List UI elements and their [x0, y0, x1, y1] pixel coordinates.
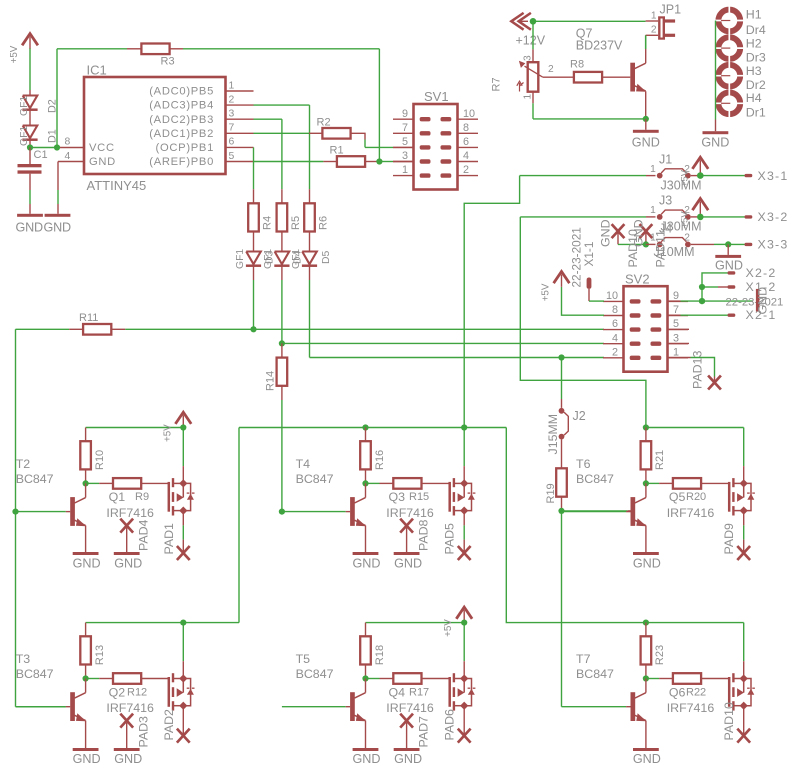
svg-text:X2-2: X2-2 [746, 266, 777, 280]
svg-text:Q3: Q3 [389, 490, 406, 504]
svg-text:Q6: Q6 [669, 685, 686, 699]
svg-text:ATTINY45: ATTINY45 [87, 178, 147, 193]
svg-text:X1-1: X1-1 [582, 242, 596, 267]
svg-text:GND: GND [353, 556, 381, 570]
svg-text:IRF7416: IRF7416 [106, 701, 154, 715]
svg-text:Dr2: Dr2 [746, 78, 766, 92]
svg-text:BD237V: BD237V [576, 39, 623, 53]
svg-text:7: 7 [229, 123, 235, 134]
svg-text:2: 2 [684, 233, 690, 244]
svg-text:IRF7416: IRF7416 [386, 506, 434, 520]
svg-text:Q2: Q2 [109, 685, 126, 699]
svg-text:PAD8: PAD8 [417, 519, 431, 551]
svg-text:BC847: BC847 [16, 667, 54, 681]
svg-text:BC847: BC847 [296, 667, 334, 681]
svg-text:X3-1: X3-1 [758, 169, 789, 183]
svg-text:PAD4: PAD4 [137, 519, 151, 551]
svg-text:22-23-2021: 22-23-2021 [726, 296, 784, 308]
svg-text:3: 3 [523, 55, 534, 61]
svg-text:GND: GND [701, 135, 729, 149]
svg-text:GND: GND [633, 752, 661, 766]
svg-text:GND: GND [632, 219, 646, 247]
svg-text:R20: R20 [686, 491, 706, 503]
svg-text:5: 5 [229, 151, 235, 162]
svg-text:6: 6 [229, 137, 235, 148]
svg-text:1: 1 [650, 164, 656, 175]
svg-text:(ADC3)PB4: (ADC3)PB4 [149, 100, 214, 112]
svg-text:BC847: BC847 [576, 667, 614, 681]
svg-text:6: 6 [612, 318, 618, 330]
svg-text:J1: J1 [659, 152, 672, 166]
svg-text:+5V: +5V [541, 283, 552, 301]
svg-text:1: 1 [402, 164, 408, 176]
svg-text:R12: R12 [127, 686, 147, 698]
svg-text:R1: R1 [330, 145, 344, 157]
svg-text:BC847: BC847 [16, 472, 54, 486]
svg-text:2: 2 [229, 94, 235, 105]
svg-text:1: 1 [673, 346, 679, 358]
svg-text:T4: T4 [296, 457, 311, 471]
svg-text:GND: GND [632, 135, 660, 149]
svg-text:R4: R4 [262, 216, 274, 230]
svg-text:GND: GND [44, 221, 71, 235]
svg-text:2: 2 [548, 64, 554, 75]
svg-text:2: 2 [612, 346, 618, 358]
svg-text:+12V: +12V [516, 33, 546, 47]
svg-text:9: 9 [673, 290, 679, 302]
svg-text:1: 1 [523, 94, 534, 100]
svg-text:+5V: +5V [443, 619, 454, 637]
svg-text:(ADC2)PB3: (ADC2)PB3 [149, 114, 214, 126]
svg-text:R23: R23 [654, 645, 666, 665]
svg-text:8: 8 [65, 137, 71, 148]
svg-text:R22: R22 [686, 686, 706, 698]
svg-text:GF1: GF1 [19, 96, 30, 116]
svg-text:PAD3: PAD3 [137, 716, 151, 748]
svg-text:R6: R6 [318, 216, 330, 230]
svg-text:R17: R17 [409, 686, 429, 698]
svg-text:R11: R11 [79, 312, 98, 324]
svg-text:D5: D5 [321, 250, 332, 264]
svg-text:J30MM: J30MM [661, 178, 702, 192]
svg-text:IRF7416: IRF7416 [667, 701, 715, 715]
svg-text:GND: GND [394, 556, 422, 570]
svg-text:PAD2: PAD2 [162, 709, 176, 741]
svg-text:H2: H2 [746, 37, 762, 51]
svg-text:+5V: +5V [162, 424, 173, 442]
svg-text:3: 3 [229, 109, 235, 120]
svg-text:(AREF)PB0: (AREF)PB0 [149, 156, 214, 168]
svg-text:X3-2: X3-2 [758, 210, 789, 224]
svg-text:T7: T7 [576, 652, 591, 666]
svg-text:H1: H1 [746, 8, 762, 22]
svg-text:GND: GND [114, 752, 142, 766]
svg-text:Dr3: Dr3 [746, 51, 766, 65]
svg-text:(ADC1)PB2: (ADC1)PB2 [149, 128, 214, 140]
svg-text:R18: R18 [374, 645, 386, 665]
svg-text:IRF7416: IRF7416 [386, 701, 434, 715]
svg-text:1: 1 [651, 10, 657, 21]
svg-text:R7: R7 [491, 77, 503, 91]
svg-text:T6: T6 [576, 457, 591, 471]
svg-text:R21: R21 [654, 450, 666, 470]
svg-text:(OCP)PB1: (OCP)PB1 [156, 142, 214, 154]
svg-text:9: 9 [402, 108, 408, 120]
svg-text:R19: R19 [545, 483, 557, 503]
svg-text:R16: R16 [374, 450, 386, 470]
svg-text:SV2: SV2 [625, 271, 650, 286]
svg-text:R2: R2 [317, 117, 331, 129]
svg-text:VCC: VCC [89, 142, 115, 154]
svg-text:GF1: GF1 [291, 249, 302, 269]
svg-text:(ADC0)PB5: (ADC0)PB5 [149, 86, 214, 98]
svg-text:BC847: BC847 [296, 472, 334, 486]
svg-text:J3: J3 [659, 194, 672, 208]
svg-text:H3: H3 [746, 64, 762, 78]
svg-text:R15: R15 [409, 491, 429, 503]
svg-text:IRF7416: IRF7416 [667, 506, 715, 520]
svg-text:R9: R9 [135, 491, 149, 503]
svg-text:R5: R5 [290, 216, 302, 230]
svg-text:4: 4 [65, 151, 71, 162]
svg-text:H4: H4 [746, 91, 762, 105]
svg-text:GND: GND [394, 752, 422, 766]
svg-text:2: 2 [684, 164, 690, 175]
svg-text:GND: GND [73, 752, 101, 766]
svg-text:PAD6: PAD6 [443, 709, 457, 741]
svg-text:7: 7 [673, 304, 679, 316]
svg-text:R8: R8 [570, 59, 584, 71]
svg-text:J15MM: J15MM [546, 414, 560, 455]
svg-text:3: 3 [673, 332, 679, 344]
svg-text:GF1: GF1 [19, 126, 30, 146]
svg-text:T2: T2 [16, 457, 31, 471]
svg-text:8: 8 [612, 304, 618, 316]
svg-text:4: 4 [463, 150, 469, 162]
svg-text:3: 3 [402, 150, 408, 162]
svg-text:2: 2 [684, 205, 690, 216]
svg-text:8: 8 [463, 122, 469, 134]
svg-text:GND: GND [16, 221, 43, 235]
svg-text:GND: GND [715, 259, 743, 273]
svg-text:T5: T5 [296, 652, 311, 666]
svg-text:IRF7416: IRF7416 [106, 506, 154, 520]
svg-text:1: 1 [229, 80, 235, 91]
svg-text:R14: R14 [265, 371, 277, 391]
svg-text:7: 7 [402, 122, 408, 134]
svg-text:5: 5 [402, 136, 408, 148]
svg-text:6: 6 [463, 136, 469, 148]
svg-text:GND: GND [114, 556, 142, 570]
svg-text:GND: GND [633, 556, 661, 570]
svg-text:BC847: BC847 [576, 472, 614, 486]
svg-text:GF1: GF1 [235, 249, 246, 269]
svg-text:PAD5: PAD5 [443, 523, 457, 555]
svg-text:PAD13: PAD13 [691, 351, 705, 389]
svg-text:Q1: Q1 [109, 490, 126, 504]
svg-text:Dr4: Dr4 [746, 23, 766, 37]
svg-text:1: 1 [650, 205, 656, 216]
svg-text:C1: C1 [34, 149, 48, 161]
svg-text:2: 2 [463, 164, 469, 176]
svg-text:SV1: SV1 [424, 89, 449, 104]
svg-text:PAD1: PAD1 [162, 523, 176, 555]
svg-text:GND: GND [599, 219, 613, 247]
svg-text:GND: GND [89, 156, 116, 168]
svg-text:GND: GND [353, 752, 381, 766]
svg-text:Dr1: Dr1 [746, 106, 766, 120]
svg-text:5: 5 [673, 318, 679, 330]
svg-text:X3-3: X3-3 [758, 238, 789, 252]
svg-text:R10: R10 [94, 450, 106, 470]
svg-text:2: 2 [651, 24, 657, 35]
svg-text:PAD11: PAD11 [654, 230, 668, 268]
svg-text:PAD9: PAD9 [722, 523, 736, 555]
svg-text:GF1: GF1 [263, 249, 274, 269]
svg-text:Q5: Q5 [669, 490, 686, 504]
svg-text:10: 10 [606, 290, 618, 302]
svg-text:J2: J2 [573, 409, 586, 423]
svg-text:GND: GND [73, 556, 101, 570]
svg-text:10: 10 [463, 108, 475, 120]
svg-text:Q4: Q4 [389, 685, 406, 699]
svg-text:+5V: +5V [9, 45, 20, 63]
svg-text:T3: T3 [16, 652, 31, 666]
svg-text:R13: R13 [94, 645, 106, 665]
svg-text:GND: GND [756, 287, 770, 315]
svg-text:PAD7: PAD7 [417, 716, 431, 748]
svg-text:IC1: IC1 [87, 63, 107, 78]
svg-text:4: 4 [612, 332, 618, 344]
svg-text:PAD10: PAD10 [722, 702, 736, 740]
svg-text:R3: R3 [161, 55, 175, 67]
svg-text:JP1: JP1 [660, 3, 682, 17]
